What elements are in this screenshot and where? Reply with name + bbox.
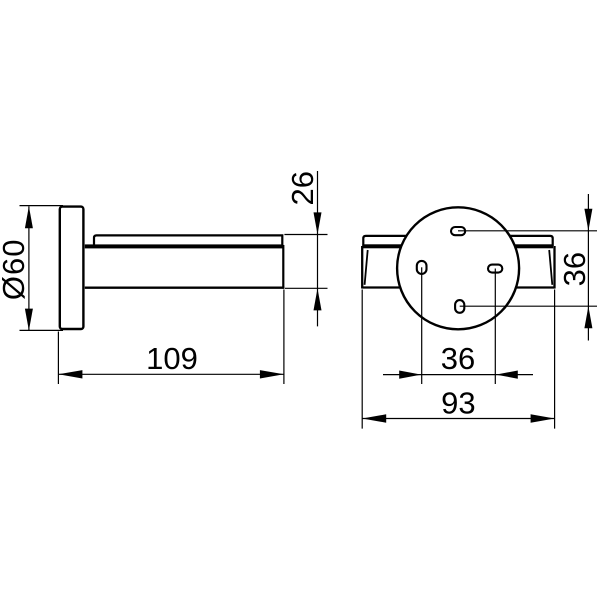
svg-text:93: 93 [441,386,475,421]
bar left bevel [365,250,368,285]
bar bottom edge [362,286,554,288]
bar left end edge [361,246,363,289]
wall plate circle (front) [397,207,519,329]
dim 36 bottom arrow left-pointing [496,371,518,379]
dim 36 right arrow down [584,209,592,231]
arm bottom edge [85,287,285,289]
leader from bottom slot [460,305,597,307]
dim 93 line [362,418,554,420]
shelf strip (side) [94,235,282,246]
dim Ø60 line [28,206,30,330]
svg-text:36: 36 [557,252,592,286]
dim Ø60 extension bottom [20,329,64,331]
shelf front edge thick line (side) [85,244,283,248]
dim 26 arrow down [314,212,322,234]
svg-text:36: 36 [441,341,475,376]
dim 109 line [58,373,284,375]
dim 93 arrow left [362,414,386,422]
dim 109 extension left [57,332,59,385]
dim 36 bottom arrow right-pointing [399,371,421,379]
dim 93 extension left [361,290,363,429]
left slot [417,261,427,274]
dim Ø60 extension top [20,205,64,207]
top slot [451,227,465,235]
wall plate (side) [60,207,84,329]
dim 26 extension bottom [285,287,328,289]
dim 26 line [317,171,319,326]
dim 93 arrow right [531,414,555,422]
dim 109 extension right [283,290,285,385]
svg-text:Ø60: Ø60 [0,238,31,300]
dim 109 arrow right [260,370,284,378]
svg-text:109: 109 [146,341,198,376]
bottom slot [455,300,464,313]
right slot [488,265,502,273]
dim 109 arrow left [58,370,82,378]
arm right edge [282,245,284,289]
dim Ø60 arrow up [25,206,33,228]
leader from left slot [421,267,423,384]
dim 26 arrow up [314,288,322,310]
bar right end edge [553,246,555,289]
dim 26 extension top [284,234,327,236]
svg-text:26: 26 [285,171,320,205]
bar right bevel [549,250,552,285]
dim Ø60 arrow down [25,309,33,331]
shelf strip (front) [363,236,552,246]
dim 36 right arrow up [584,306,592,328]
dim 36 right line [587,194,589,341]
leader from right slot [494,269,496,385]
shelf front edge thick line (front) [362,244,553,248]
leader from top slot [458,230,597,232]
dim 36 bottom line [383,374,533,376]
dim 93 extension right [554,290,556,429]
